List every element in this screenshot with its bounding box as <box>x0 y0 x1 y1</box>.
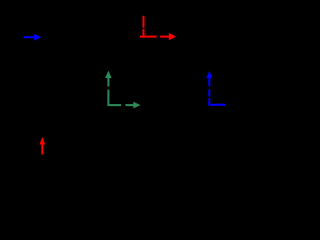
transistor Q1 <box>98 38 118 58</box>
voltage arrow u1 (green, dashed, vertical up) <box>105 71 112 107</box>
resistor R1 <box>52 60 62 86</box>
current arrow i1 (blue, input lead) <box>23 34 41 41</box>
ground <box>115 150 125 156</box>
current arrow i2 (red, bent from top rail to the right) <box>140 16 176 41</box>
voltage arrow u2 (blue, horizontal base segment) <box>209 104 225 106</box>
voltage arrow u1 (green, dashed, horizontal right) <box>108 102 140 109</box>
wire emitter branch Q1 <box>107 58 109 150</box>
transistor Q2 <box>185 38 205 58</box>
wire input lead <box>10 36 90 38</box>
voltage arrow u2 (blue, dashed, vertical up) <box>206 71 212 106</box>
current arrow iE (red, bottom-left, pointing up) <box>39 137 45 155</box>
wire collector branch Q2 <box>194 16 196 150</box>
wire bottom rail <box>10 149 240 151</box>
wire top supply rail <box>10 15 240 17</box>
